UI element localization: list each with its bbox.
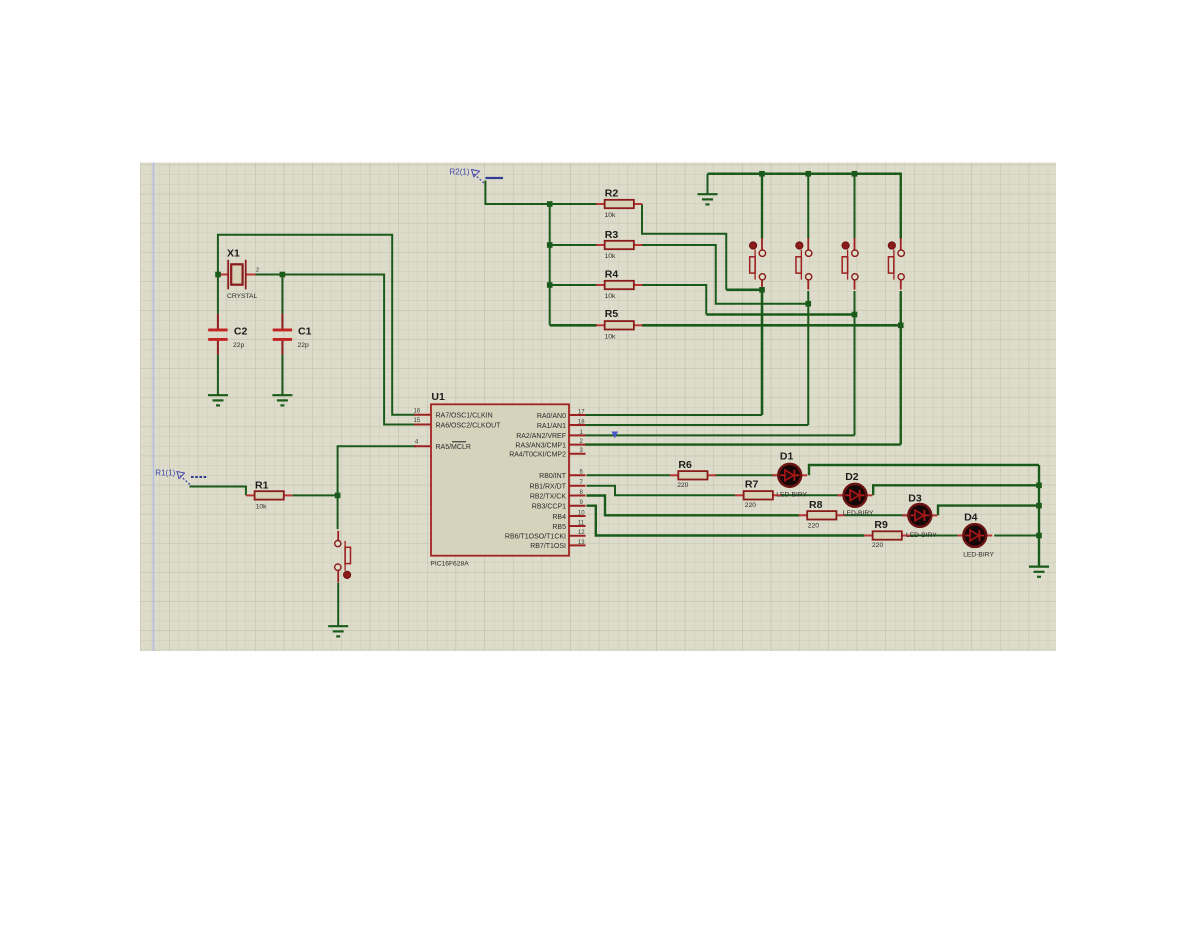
svg-text:LED-BIRY: LED-BIRY	[843, 510, 874, 517]
svg-text:CRYSTAL: CRYSTAL	[227, 293, 258, 300]
svg-text:10k: 10k	[605, 212, 616, 219]
svg-text:220: 220	[872, 542, 883, 549]
svg-text:R1: R1	[255, 480, 269, 492]
svg-text:R9: R9	[874, 519, 888, 531]
svg-text:D4: D4	[964, 512, 978, 524]
svg-text:2: 2	[256, 268, 259, 274]
svg-text:RB3/CCP1: RB3/CCP1	[532, 504, 566, 511]
svg-text:R2(1): R2(1)	[450, 168, 470, 177]
svg-text:RB7/T1OSI: RB7/T1OSI	[530, 543, 566, 550]
svg-text:R6: R6	[678, 459, 692, 471]
svg-text:15: 15	[414, 418, 421, 424]
svg-text:RA6/OSC2/CLKOUT: RA6/OSC2/CLKOUT	[436, 423, 502, 430]
svg-text:RA2/AN2/VREF: RA2/AN2/VREF	[516, 433, 566, 440]
svg-text:10k: 10k	[256, 504, 267, 511]
svg-text:LED-BIRY: LED-BIRY	[963, 552, 994, 559]
svg-text:RB0/INT: RB0/INT	[539, 473, 567, 480]
svg-text:D1: D1	[780, 451, 794, 463]
svg-text:C2: C2	[234, 326, 248, 338]
svg-text:D2: D2	[845, 471, 859, 483]
svg-text:10: 10	[578, 510, 585, 516]
svg-text:RA7/OSC1/CLKIN: RA7/OSC1/CLKIN	[436, 413, 493, 420]
svg-text:RB1/RX/DT: RB1/RX/DT	[529, 484, 566, 491]
svg-text:22p: 22p	[233, 342, 244, 349]
svg-text:R3: R3	[605, 229, 619, 241]
svg-text:RA5/MCLR: RA5/MCLR	[436, 444, 471, 451]
svg-text:18: 18	[578, 419, 585, 425]
svg-text:PIC16F628A: PIC16F628A	[430, 561, 469, 568]
svg-text:R4: R4	[605, 269, 619, 281]
svg-text:RA4/T0CKI/CMP2: RA4/T0CKI/CMP2	[509, 452, 566, 459]
svg-text:220: 220	[745, 502, 756, 509]
svg-text:RB6/T1OSO/T1CKI: RB6/T1OSO/T1CKI	[505, 534, 566, 541]
svg-text:22p: 22p	[298, 342, 309, 349]
svg-text:RB4: RB4	[552, 514, 566, 521]
svg-text:17: 17	[578, 409, 585, 415]
svg-text:10k: 10k	[605, 253, 616, 260]
svg-text:RA0/AN0: RA0/AN0	[537, 413, 566, 420]
svg-text:220: 220	[808, 523, 819, 530]
svg-text:R2: R2	[605, 188, 619, 200]
svg-text:R1(1): R1(1)	[155, 469, 175, 478]
svg-text:10k: 10k	[605, 334, 616, 341]
svg-text:RB2/TX/CK: RB2/TX/CK	[530, 493, 567, 500]
svg-text:16: 16	[414, 408, 421, 414]
svg-text:13: 13	[578, 540, 585, 546]
svg-text:12: 12	[578, 530, 585, 536]
svg-text:D3: D3	[908, 493, 922, 505]
svg-text:R7: R7	[745, 479, 759, 491]
svg-text:R8: R8	[809, 499, 823, 511]
svg-text:220: 220	[677, 482, 688, 489]
svg-text:RA3/AN3/CMP1: RA3/AN3/CMP1	[515, 442, 566, 449]
svg-text:RA1/AN1: RA1/AN1	[537, 423, 566, 430]
svg-text:U1: U1	[431, 391, 445, 403]
svg-text:11: 11	[578, 520, 585, 526]
svg-text:R5: R5	[605, 308, 619, 320]
svg-text:LED-BIRY: LED-BIRY	[906, 532, 937, 539]
svg-text:X1: X1	[227, 248, 240, 260]
svg-text:RB5: RB5	[552, 524, 566, 531]
svg-text:10k: 10k	[605, 293, 616, 300]
svg-text:C1: C1	[298, 326, 312, 338]
svg-text:LED-BIRY: LED-BIRY	[776, 492, 807, 499]
